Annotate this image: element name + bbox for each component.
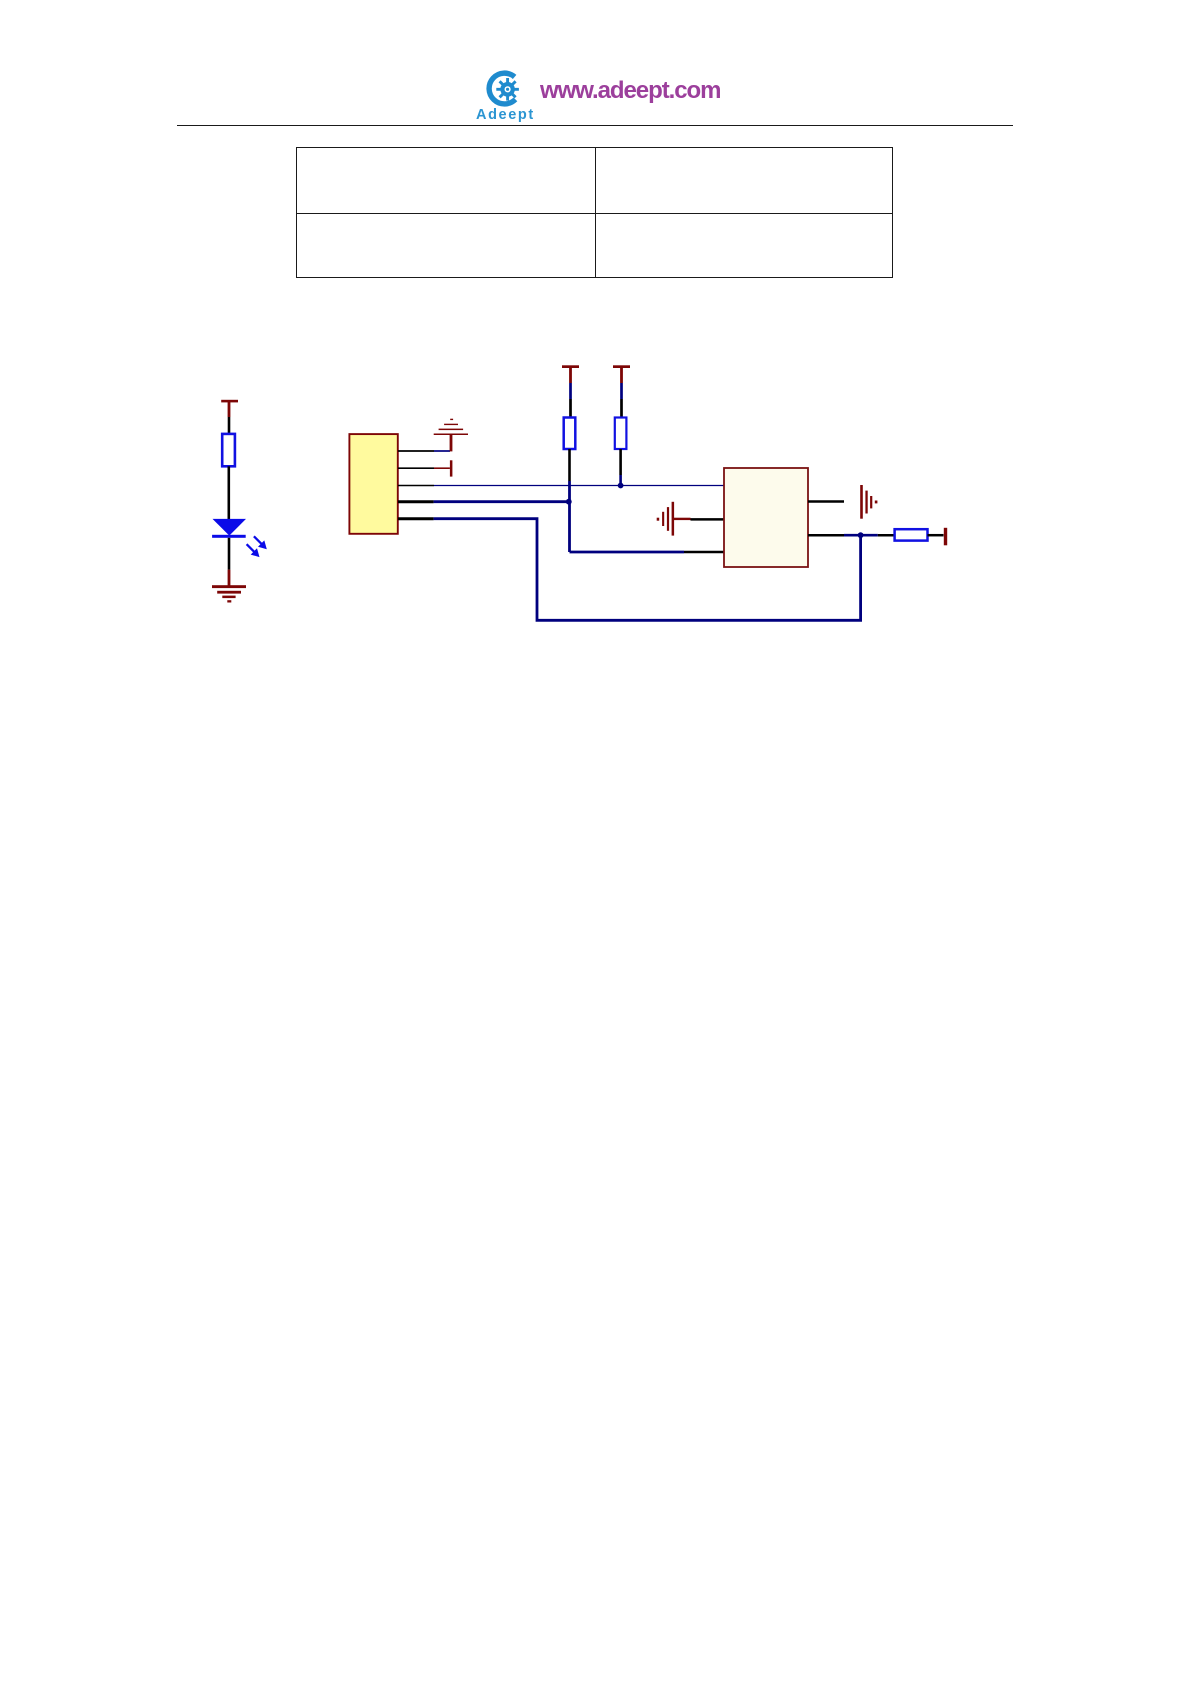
wire [228,417,231,434]
wire [691,518,725,521]
wire [228,538,231,570]
ground GND4 (right of U1) [860,485,877,519]
power VCC2 [562,365,579,383]
power VCC3 [613,365,630,383]
power VCC1 (LED branch) [221,400,238,417]
node junction [858,532,864,538]
wire [928,534,944,537]
wire [568,449,571,481]
resistor R3 [615,418,627,450]
net wire (thin) [434,485,724,487]
pin wire (U1 right top) [808,500,844,503]
connector J1 [349,434,397,534]
www.adeept.com [540,77,720,105]
pin 2 wire [398,467,434,469]
wire [434,450,450,452]
wire [619,449,622,475]
wire [569,383,572,399]
Adeept wordmark [476,107,546,123]
IC U1 [724,468,808,567]
wire [684,551,724,554]
power bar (pin 2) [450,460,453,476]
pin 1 wire [398,450,434,452]
ground GND2 (inverted, pin 1) [434,419,468,452]
power bar (right) [944,528,947,546]
wire [569,399,572,418]
wire [434,500,570,503]
wire [434,519,861,621]
table [296,147,892,279]
pin 5 wire [398,517,434,520]
wire [570,551,685,554]
ground GND1 (LED branch) [212,570,246,603]
node junction [618,483,624,489]
wire [620,383,623,399]
resistor R2 [564,418,576,450]
logo crescent C [489,73,515,104]
header rule [177,125,1013,127]
wire [619,475,622,486]
pin 3 wire [398,485,434,487]
pin wire (U1 right bottom) [808,534,844,537]
resistor R4 [895,529,928,540]
node junction [566,499,572,505]
pin 4 wire [398,500,434,503]
logo gear [496,78,519,101]
wire [568,481,571,552]
Adeept logo [470,58,550,118]
ground GND3 (left of U1) [657,502,691,536]
wire [844,534,878,537]
LED D1 [212,519,267,557]
resistor R1 [222,434,235,466]
wire [620,399,623,418]
wire [878,534,895,537]
wire [434,467,450,469]
wire [228,466,231,519]
